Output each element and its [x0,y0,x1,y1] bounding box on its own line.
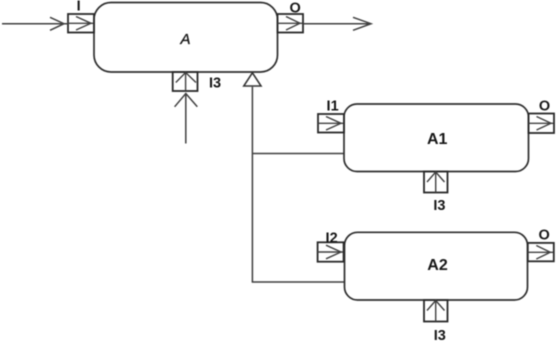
block A2 [345,232,528,300]
svg-text:I1: I1 [327,98,339,114]
port I3 chevron on A1 [427,172,445,193]
wire branch to A1 [252,153,344,155]
label I1 [327,98,339,114]
label I3 on A1 [433,198,445,214]
label O on A1 [539,98,550,114]
label I2 [326,230,338,246]
port I1 chevron [318,117,344,131]
port I3 chevron on A2 [427,300,445,322]
port O on block A2 [528,243,554,261]
wire input arrow into I [2,17,68,30]
svg-text:A: A [179,31,190,48]
wire branch to A2 [252,281,345,283]
port O chevron on A1 [529,117,554,131]
label A [179,31,190,48]
svg-text:O: O [539,98,550,114]
port I3 on block A2 [424,300,448,322]
svg-text:A1: A1 [427,131,448,148]
svg-text:I3: I3 [434,328,446,341]
svg-text:O: O [290,1,301,17]
svg-text:O: O [539,227,550,243]
label O [290,1,301,17]
port I chevron [68,17,94,31]
wire output arrow from O [303,17,371,30]
port O chevron on A2 [528,246,554,260]
svg-text:I2: I2 [326,230,338,246]
label A2 [427,257,448,274]
label I3 on A2 [434,328,446,341]
generalization triangle under block A [244,73,261,86]
label I [77,0,81,15]
port I2 chevron [318,245,343,259]
port I3 chevron [176,72,196,91]
label O on A2 [539,227,550,243]
label A1 [427,131,448,148]
svg-text:I3: I3 [209,75,221,91]
wire trunk from triangle [251,87,253,282]
svg-text:I: I [77,0,81,15]
port I1 on block A1 [318,114,344,133]
port I2 on block A2 [318,242,344,261]
block A [94,3,278,73]
port I on block A [68,14,94,33]
svg-text:I3: I3 [433,198,445,214]
label I3 [209,75,221,91]
port O on block A [278,14,304,33]
block A1 [344,104,529,172]
wire input arrow into I3 [175,93,198,144]
port O on block A1 [529,114,555,134]
port I3 on block A1 [424,172,448,193]
port I3 on block A [173,72,198,91]
port O chevron [278,17,303,31]
svg-text:A2: A2 [427,257,448,274]
